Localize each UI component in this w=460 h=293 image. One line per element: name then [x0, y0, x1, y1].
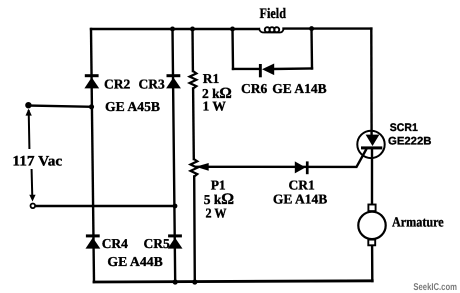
- svg-text:CR6: CR6: [241, 81, 267, 96]
- svg-text:2 W: 2 W: [206, 206, 227, 221]
- svg-text:SCR1: SCR1: [390, 122, 418, 134]
- svg-text:SeekIC.com: SeekIC.com: [413, 282, 457, 293]
- svg-text:117 Vac: 117 Vac: [12, 154, 62, 170]
- svg-text:Field: Field: [260, 6, 287, 22]
- svg-text:CR2: CR2: [104, 76, 130, 91]
- svg-text:R1: R1: [203, 71, 220, 86]
- svg-text:GE A45B: GE A45B: [105, 99, 160, 114]
- svg-text:1 W: 1 W: [203, 99, 227, 114]
- svg-text:GE A14B: GE A14B: [272, 81, 326, 96]
- svg-text:CR1: CR1: [289, 178, 315, 193]
- svg-text:Armature: Armature: [392, 216, 444, 231]
- svg-text:GE222B: GE222B: [388, 136, 432, 148]
- svg-text:CR4: CR4: [102, 236, 128, 251]
- svg-text:GE A44B: GE A44B: [107, 254, 162, 269]
- svg-text:GE A14B: GE A14B: [273, 192, 327, 207]
- svg-text:CR3: CR3: [139, 76, 165, 91]
- svg-text:CR5: CR5: [144, 236, 170, 251]
